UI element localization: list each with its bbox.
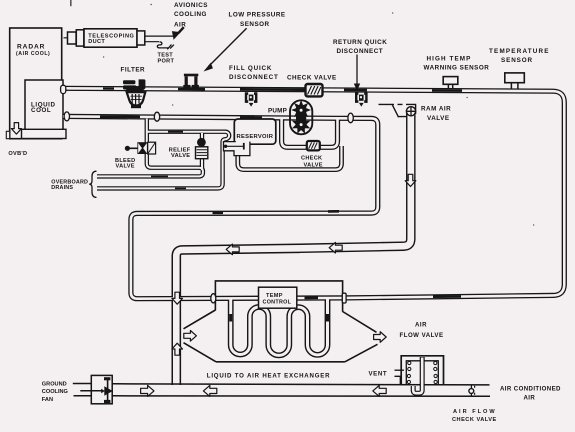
- svg-text:AVIONICS: AVIONICS: [174, 2, 208, 9]
- svg-text:AIR FLOW: AIR FLOW: [453, 409, 497, 415]
- svg-text:CHECK VALVE: CHECK VALVE: [287, 74, 337, 81]
- svg-text:CONTROL: CONTROL: [263, 300, 292, 306]
- svg-text:(AIR COOL): (AIR COOL): [16, 51, 50, 57]
- svg-text:VALVE: VALVE: [304, 163, 323, 169]
- svg-text:AIR: AIR: [415, 321, 427, 328]
- svg-text:VALVE: VALVE: [427, 115, 450, 122]
- svg-text:VENT: VENT: [369, 371, 388, 378]
- svg-text:AIR CONDITIONED: AIR CONDITIONED: [500, 385, 561, 392]
- svg-text:LIQUID TO AIR HEAT EXCHANG: LIQUID TO AIR HEAT EXCHANGER: [207, 373, 331, 380]
- svg-text:FLOW VALVE: FLOW VALVE: [400, 332, 444, 339]
- svg-text:RAM AIR: RAM AIR: [421, 106, 451, 113]
- svg-text:DRAINS: DRAINS: [51, 185, 73, 191]
- svg-text:TEMPERATURE: TEMPERATURE: [489, 48, 550, 55]
- svg-text:GROUND: GROUND: [42, 382, 67, 388]
- svg-text:OVB'D: OVB'D: [8, 151, 27, 157]
- svg-text:FILTER: FILTER: [121, 67, 146, 74]
- svg-text:RADAR: RADAR: [17, 43, 45, 50]
- svg-text:HIGH TEMP: HIGH TEMP: [427, 55, 472, 62]
- svg-text:FILL QUICK: FILL QUICK: [229, 65, 272, 72]
- svg-text:TEMP: TEMP: [266, 293, 283, 299]
- svg-text:AIR: AIR: [524, 395, 536, 402]
- svg-text:LOW PRESSURE: LOW PRESSURE: [229, 12, 286, 19]
- svg-text:SENSOR: SENSOR: [240, 21, 270, 28]
- svg-text:COOLING: COOLING: [174, 11, 207, 18]
- svg-text:COOLING: COOLING: [42, 389, 68, 395]
- svg-text:WARNING SENSOR: WARNING SENSOR: [424, 65, 490, 72]
- svg-text:COOL: COOL: [31, 107, 51, 114]
- svg-text:DUCT: DUCT: [88, 39, 105, 45]
- svg-text:VALVE: VALVE: [171, 153, 190, 159]
- svg-text:VALVE: VALVE: [116, 164, 135, 170]
- svg-text:AIR: AIR: [174, 22, 186, 29]
- svg-text:RETURN QUICK: RETURN QUICK: [333, 39, 387, 46]
- svg-text:CHECK: CHECK: [301, 156, 322, 162]
- svg-text:SENSOR: SENSOR: [501, 57, 533, 64]
- svg-text:DISCONNECT: DISCONNECT: [229, 74, 279, 81]
- svg-text:FAN: FAN: [42, 397, 53, 403]
- svg-text:RESERVOIR: RESERVOIR: [237, 134, 274, 140]
- svg-text:PUMP: PUMP: [268, 108, 287, 115]
- svg-text:PORT: PORT: [158, 58, 175, 64]
- svg-text:DISCONNECT: DISCONNECT: [337, 48, 384, 55]
- svg-text:CHECK VALVE: CHECK VALVE: [452, 417, 497, 423]
